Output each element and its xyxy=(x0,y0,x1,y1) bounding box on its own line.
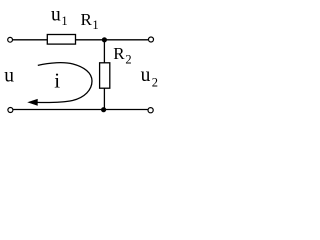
current arrow i (loop) xyxy=(37,63,93,103)
terminal top-left xyxy=(8,37,13,42)
resistor R2 xyxy=(100,63,110,88)
svg-text:u: u xyxy=(141,65,151,86)
svg-text:i: i xyxy=(54,69,60,93)
terminal bottom-right xyxy=(148,108,153,113)
wire bottom (left terminal to right terminal) xyxy=(13,109,147,111)
wire top-right (R1 to node A to right terminal) xyxy=(76,39,149,41)
svg-text:1: 1 xyxy=(61,14,67,28)
svg-text:2: 2 xyxy=(152,75,158,89)
resistor R1 xyxy=(47,35,75,45)
node A (junction dot top, R2 to top wire) xyxy=(102,37,107,42)
svg-text:2: 2 xyxy=(125,53,131,67)
terminal bottom-left xyxy=(8,108,13,113)
wire R2 bottom lead xyxy=(103,88,105,109)
svg-text:R: R xyxy=(113,44,125,63)
node B (junction dot bottom, R2 to bottom wire) xyxy=(101,107,106,112)
svg-text:u: u xyxy=(4,66,14,87)
svg-text:u: u xyxy=(51,5,61,26)
wire top-left (terminal to R1) xyxy=(13,39,48,41)
current arrow head xyxy=(28,99,37,105)
svg-text:1: 1 xyxy=(92,18,98,32)
wire R2 top lead xyxy=(103,40,105,63)
svg-text:R: R xyxy=(81,10,93,29)
terminal top-right xyxy=(149,37,154,42)
